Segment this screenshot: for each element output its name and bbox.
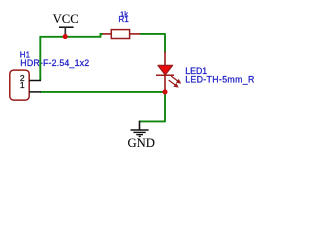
LED1 cathode bar bbox=[156, 74, 174, 76]
svg-text:GND: GND bbox=[127, 136, 155, 150]
resistor R1 body bbox=[111, 30, 129, 39]
power symbol VCC bar bbox=[59, 26, 74, 28]
resistor R1 left lead bbox=[103, 33, 112, 35]
svg-text:1: 1 bbox=[20, 80, 25, 90]
LED1 triangle bbox=[158, 65, 173, 75]
wire W3: resistor to LED anode bbox=[140, 34, 165, 52]
svg-text:VCC: VCC bbox=[53, 12, 79, 26]
emission arrow 2 bbox=[169, 80, 179, 88]
wire W4: H1 pin 1 to LED cathode node bbox=[41, 91, 166, 93]
svg-text:LED-TH-5mm_R: LED-TH-5mm_R bbox=[185, 75, 254, 85]
svg-text:HDR-F-2.54_1x2: HDR-F-2.54_1x2 bbox=[20, 58, 89, 68]
power symbol VCC stem bbox=[64, 27, 66, 35]
LED1 anode lead bbox=[164, 52, 166, 66]
wire W5: LED cathode node to GND bbox=[140, 92, 165, 122]
emission arrow 1 bbox=[171, 76, 181, 84]
resistor R1 right lead bbox=[130, 33, 141, 35]
wire W1 jog to resistor lead bbox=[101, 34, 104, 38]
wire W1: H1 pin 2 riser and VCC rail bbox=[40, 37, 100, 81]
svg-text:R1: R1 bbox=[118, 15, 129, 24]
ground symbol stem bbox=[139, 121, 141, 130]
ground symbol bar 2 bbox=[133, 131, 145, 133]
connector H1 body bbox=[10, 70, 29, 100]
ground symbol bar 3 bbox=[136, 134, 143, 136]
junction node at VCC bbox=[63, 34, 68, 39]
H1 pin 2 lead bbox=[29, 80, 41, 82]
LED1 cathode lead bbox=[164, 75, 166, 92]
ground symbol bar 1 bbox=[131, 129, 149, 131]
ground symbol bar 4 bbox=[139, 135, 141, 137]
junction node at LED cathode bbox=[162, 89, 167, 94]
H1 pin 1 lead bbox=[29, 91, 41, 93]
